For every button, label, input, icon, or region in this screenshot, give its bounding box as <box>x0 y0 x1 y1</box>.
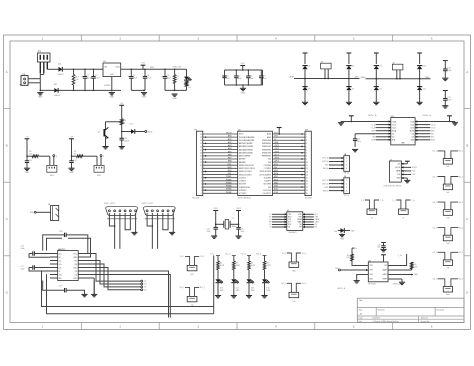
connector KK_B <box>344 176 350 197</box>
svg-text:MCP2551: MCP2551 <box>368 284 376 286</box>
wire L298 supply left <box>341 121 376 123</box>
svg-text:OUT3_B: OUT3_B <box>322 180 329 182</box>
svg-text:10k: 10k <box>346 257 349 259</box>
svg-text:4: 4 <box>275 325 277 329</box>
ground D14 <box>231 295 237 297</box>
svg-text:CANL: CANL <box>425 76 430 79</box>
wire U6 RXD route <box>335 268 368 271</box>
svg-text:EMUC2/OC4/RD1: EMUC2/OC4/RD1 <box>239 174 252 176</box>
svg-text:U2RX: U2RX <box>274 158 280 160</box>
svg-text:4: 4 <box>346 168 347 170</box>
resistor R3 <box>71 151 97 157</box>
svg-text:17: 17 <box>306 184 308 186</box>
svg-text:Revision: Revision <box>436 310 444 312</box>
ground D8 column <box>373 101 379 103</box>
svg-text:In5_2: In5_2 <box>459 252 463 254</box>
ground SW2 circuit <box>68 167 74 169</box>
ground cap stage <box>141 92 147 94</box>
power jack PJ1 <box>20 74 28 85</box>
resistor R10 <box>388 262 418 270</box>
svg-text:6: 6 <box>431 325 433 329</box>
ground 5VDC_OUT2 <box>169 231 175 233</box>
svg-text:Int5: Int5 <box>446 267 449 270</box>
svg-text:Out2: Out2 <box>392 126 396 129</box>
svg-text:10k: 10k <box>74 154 77 156</box>
svg-text:MCLR: MCLR <box>412 167 418 169</box>
wire long loop 2 <box>47 274 214 313</box>
svg-text:OSC2/RC15: OSC2/RC15 <box>262 193 271 195</box>
svg-text:C1-: C1- <box>59 260 62 262</box>
net stub Rx1_2 <box>225 254 235 262</box>
LED D3 <box>184 69 192 90</box>
svg-text:9: 9 <box>306 159 307 161</box>
svg-text:D12: D12 <box>130 124 133 126</box>
diode D12 <box>130 124 145 134</box>
wire MAX232 right pins <box>78 254 86 275</box>
diode D9 <box>374 87 382 91</box>
svg-text:C1+: C1+ <box>59 253 62 255</box>
diode D1 <box>58 64 64 76</box>
title block <box>357 298 464 323</box>
svg-text:T2o: T2o <box>59 274 62 276</box>
svg-text:RX1: RX1 <box>144 284 147 286</box>
wire serial route 2 <box>86 261 141 285</box>
wire U6 VDD ground <box>357 275 369 281</box>
wire input rail top <box>47 68 58 70</box>
ground 5VDC_OUT1 <box>131 231 137 233</box>
capacitor C4 <box>143 69 152 90</box>
wire D7 ground <box>348 90 350 102</box>
wire R7 to D15 <box>248 270 250 280</box>
svg-text:RB6: RB6 <box>228 154 232 156</box>
power flag L298 A <box>349 116 354 122</box>
capacitor C16 <box>21 246 51 258</box>
svg-text:2: 2 <box>346 161 347 163</box>
svg-text:PWM2L/RE2: PWM2L/RE2 <box>262 146 271 148</box>
svg-text:J4: J4 <box>48 204 50 206</box>
svg-text:AN4: AN4 <box>228 147 232 150</box>
wire L298 right pins <box>415 120 436 141</box>
svg-text:In4_2: In4_2 <box>459 227 463 229</box>
svg-text:RB7: RB7 <box>228 158 232 160</box>
connector 5VDC_OUT2 <box>142 203 175 216</box>
svg-text:Chg: Chg <box>334 231 337 233</box>
wire KK_B pins <box>322 179 344 192</box>
power flag cap bank <box>240 63 245 70</box>
terminal Int1 <box>433 151 464 169</box>
LED D13 <box>216 279 225 292</box>
svg-text:PGD: PGD <box>274 192 279 194</box>
svg-text:KK_B: KK_B <box>344 195 350 197</box>
diode D10 <box>417 66 426 70</box>
resistor R7 <box>248 261 256 270</box>
svg-text:Tx1_1: Tx1_1 <box>180 256 185 258</box>
svg-text:20: 20 <box>200 134 202 136</box>
svg-text:PWM3L/RE4: PWM3L/RE4 <box>262 152 271 154</box>
svg-text:RD0: RD0 <box>228 170 232 172</box>
transistor Q1 <box>98 127 109 138</box>
svg-text:Out3: Out3 <box>410 126 414 129</box>
svg-text:OC3/RD3: OC3/RD3 <box>239 181 246 183</box>
svg-text:SDO1/RF8: SDO1/RF8 <box>264 184 272 186</box>
svg-text:3: 3 <box>346 165 347 167</box>
svg-text:Tx1_2: Tx1_2 <box>200 256 205 258</box>
power flag U6 <box>381 255 386 262</box>
wire 5VDC_OUT2 pins <box>145 213 175 249</box>
svg-text:14: 14 <box>200 153 202 155</box>
svg-text:1N4007: 1N4007 <box>58 74 64 76</box>
svg-text:C12: C12 <box>29 160 32 162</box>
svg-text:R9: R9 <box>347 255 349 257</box>
ground C14 <box>119 146 125 148</box>
power flag D10 column <box>417 53 422 64</box>
ground D6 column <box>346 101 352 103</box>
wire KK_A pins <box>322 157 344 171</box>
ground D16 <box>261 295 267 297</box>
wire U6 TXD route <box>352 261 368 266</box>
wire serial route 4 <box>86 268 141 290</box>
svg-text:AN0: AN0 <box>228 135 232 138</box>
svg-text:4: 4 <box>275 37 277 41</box>
svg-text:Int2: Int2 <box>446 191 449 194</box>
svg-text:10: 10 <box>306 162 308 164</box>
svg-text:5: 5 <box>201 181 202 183</box>
svg-text:VSS: VSS <box>370 270 373 272</box>
svg-text:U1TX/RF3: U1TX/RF3 <box>239 193 246 195</box>
jumper J1 <box>321 62 332 79</box>
wire 5V rail <box>121 69 187 71</box>
svg-text:10: 10 <box>200 165 202 167</box>
capacitor C2 <box>91 69 100 90</box>
wire PJ1 to JP1 <box>28 79 40 83</box>
svg-text:17: 17 <box>200 143 202 145</box>
svg-text:Rx2_1: Rx2_1 <box>281 283 286 285</box>
svg-text:B: B <box>466 143 468 147</box>
capacitor C12 <box>25 156 32 168</box>
ground D15 <box>246 295 252 297</box>
svg-text:INT: INT <box>288 222 291 224</box>
svg-text:PWM3: PWM3 <box>226 182 232 184</box>
connector 5VDC_OUT1 <box>104 203 137 216</box>
ground L298 B <box>452 122 458 126</box>
svg-text:19: 19 <box>306 190 308 192</box>
svg-text:PWM3H/RE5: PWM3H/RE5 <box>262 156 271 158</box>
svg-text:SEN_B: SEN_B <box>323 190 329 192</box>
capacitor C15 <box>353 134 376 147</box>
power flag D8 column <box>374 53 379 64</box>
svg-text:INT: INT <box>269 222 272 224</box>
svg-text:PWM1H/RE1: PWM1H/RE1 <box>262 143 271 145</box>
border row ticks left and right <box>4 109 471 256</box>
svg-text:CANH: CANH <box>360 76 366 79</box>
svg-text:C19: C19 <box>59 286 62 288</box>
svg-text:4: 4 <box>201 184 202 186</box>
svg-text:GND: GND <box>69 172 74 174</box>
svg-text:In1_2: In1_2 <box>459 151 463 153</box>
svg-text:Drawn By:: Drawn By: <box>421 320 430 323</box>
svg-text:In6_1: In6_1 <box>433 279 437 281</box>
svg-text:MCLR: MCLR <box>395 167 401 169</box>
wire ICSP pins <box>401 161 417 180</box>
svg-text:C13: C13 <box>73 160 76 162</box>
svg-text:5: 5 <box>353 37 355 41</box>
svg-text:3: 3 <box>201 187 202 189</box>
ground MAX232 b <box>78 278 97 297</box>
svg-text:1: 1 <box>346 180 347 182</box>
svg-text:C2-: C2- <box>59 267 62 269</box>
wire Q1 emitter ground <box>105 137 107 147</box>
svg-text:SW2: SW2 <box>227 167 231 169</box>
svg-text:VSS: VSS <box>298 217 301 219</box>
wire R6 to D14 <box>233 270 235 280</box>
svg-text:5: 5 <box>353 325 355 329</box>
svg-text:2: 2 <box>346 183 347 185</box>
svg-text:Int1: Int1 <box>446 165 449 168</box>
power flag D6 column <box>347 53 352 64</box>
svg-text:12: 12 <box>306 168 308 170</box>
border row letters <box>6 70 470 295</box>
svg-text:Rx2_2: Rx2_2 <box>302 283 307 285</box>
net stub Tx2_2 <box>241 254 251 262</box>
ic U5 CAN controller <box>287 210 303 234</box>
svg-text:1N4007: 1N4007 <box>54 95 60 97</box>
power flag Q1 <box>119 103 124 119</box>
wire serial route 3 <box>86 264 141 287</box>
svg-text:TX1: TX1 <box>144 281 147 283</box>
svg-text:R10: R10 <box>414 264 417 266</box>
svg-text:5VDC_OUT1: 5VDC_OUT1 <box>104 203 115 205</box>
net stub Y1A <box>213 208 218 227</box>
diode D11 <box>417 87 426 91</box>
wire R8 to D16 <box>264 270 266 280</box>
svg-text:U2RX/CN17/RF4: U2RX/CN17/RF4 <box>259 171 271 173</box>
svg-text:13: 13 <box>200 156 202 158</box>
svg-text:CS: CS <box>288 227 290 229</box>
svg-text:PWM4: PWM4 <box>226 186 232 188</box>
connector P1 left <box>192 129 203 199</box>
driver U3 L298 <box>391 116 415 145</box>
svg-text:Y1: Y1 <box>232 218 234 220</box>
capacitor C11 stub <box>442 91 452 109</box>
capacitor C7 <box>234 70 242 85</box>
svg-text:Out4: Out4 <box>410 123 414 126</box>
svg-text:Date:: Date: <box>359 317 364 320</box>
capacitor C20 <box>207 227 218 235</box>
wire top rail to regulator <box>62 69 103 71</box>
diode D7 <box>346 87 354 91</box>
svg-text:8: 8 <box>201 171 202 173</box>
resistor R9 <box>346 248 353 261</box>
svg-text:RD3: RD3 <box>274 179 278 181</box>
svg-text:V+: V+ <box>59 257 61 259</box>
svg-text:12: 12 <box>200 159 202 161</box>
svg-text:C_3: C_3 <box>361 200 364 202</box>
resistor R8 <box>263 261 271 270</box>
connector J3 ICSP <box>384 159 402 187</box>
capacitor C19 bottom <box>43 281 85 295</box>
wire D8 node <box>375 69 377 87</box>
svg-text:In3_2: In3_2 <box>459 202 463 204</box>
capacitor C5 <box>161 69 171 90</box>
svg-text:SDI1/RF7: SDI1/RF7 <box>264 181 271 183</box>
svg-text:U1RX: U1RX <box>274 151 280 153</box>
svg-text:13: 13 <box>306 171 308 173</box>
svg-text:D9: D9 <box>379 88 381 90</box>
terminal Ile <box>361 200 384 220</box>
pin SW2 output <box>100 155 105 158</box>
terminal Int4 <box>433 227 464 245</box>
terminal M34 <box>282 253 307 273</box>
ground regulator <box>109 92 115 94</box>
svg-text:B: B <box>6 143 8 147</box>
svg-text:OSC2: OSC2 <box>236 208 241 210</box>
svg-text:16: 16 <box>200 146 202 148</box>
svg-text:OC1/RD2: OC1/RD2 <box>239 177 246 179</box>
svg-text:LM7805: LM7805 <box>104 85 111 87</box>
svg-text:19: 19 <box>200 137 202 139</box>
svg-text:15: 15 <box>306 177 308 179</box>
svg-text:PWR_LED: PWR_LED <box>173 67 182 69</box>
svg-text:Rx2_2: Rx2_2 <box>256 254 261 256</box>
jumper J2 <box>392 63 403 79</box>
svg-text:1k: 1k <box>176 79 178 81</box>
svg-text:In5_1: In5_1 <box>433 252 437 254</box>
svg-text:14: 14 <box>306 174 308 176</box>
svg-text:Vin: Vin <box>104 67 107 69</box>
svg-text:ICSP FOR PIC PROG: ICSP FOR PIC PROG <box>384 185 402 187</box>
svg-text:Ile: Ile <box>371 218 373 220</box>
svg-text:T_3v: T_3v <box>353 248 357 250</box>
ground C22 <box>380 248 386 250</box>
svg-text:C18: C18 <box>59 231 62 233</box>
wire D16 ground <box>264 282 266 295</box>
svg-text:Sheet of: Sheet of <box>421 317 429 320</box>
svg-text:CS: CS <box>269 227 271 229</box>
svg-text:22pF: 22pF <box>240 231 244 233</box>
svg-text:6: 6 <box>201 177 202 179</box>
wire Q1 collector node <box>121 131 131 133</box>
terminal Int3 <box>433 202 464 220</box>
svg-text:VREF: VREF <box>383 279 387 281</box>
capacitor C8 <box>246 70 254 85</box>
net arrow T_3v left <box>352 248 357 250</box>
capacitor C13 <box>69 156 76 168</box>
svg-text:SW1: SW1 <box>227 164 231 166</box>
wire long loop 1 <box>42 256 214 307</box>
svg-text:Vout: Vout <box>115 66 119 69</box>
wire serial route 5 <box>86 271 169 318</box>
wire TVS group2 node <box>366 78 431 80</box>
connector P2 right <box>305 129 312 199</box>
svg-text:11: 11 <box>306 165 308 167</box>
svg-text:2: 2 <box>119 325 121 329</box>
svg-text:1: 1 <box>42 325 44 329</box>
svg-text:Tx2_2: Tx2_2 <box>302 253 307 255</box>
wire cap stage ground <box>131 90 145 92</box>
svg-text:1k: 1k <box>124 123 126 125</box>
svg-text:IN2: IN2 <box>372 137 375 139</box>
svg-text:8: 8 <box>306 156 307 158</box>
sheet border outer frame <box>4 35 471 330</box>
svg-text:3: 3 <box>346 187 347 189</box>
svg-text:TX2: TX2 <box>144 287 147 289</box>
svg-text:OUT1_A: OUT1_A <box>322 157 329 160</box>
power flag VCC <box>141 63 146 70</box>
svg-text:In1_1: In1_1 <box>433 151 437 153</box>
capacitor C21 <box>236 227 244 235</box>
svg-text:D4: D4 <box>308 66 310 68</box>
svg-text:File:: File: <box>359 321 363 323</box>
svg-text:In2_1: In2_1 <box>433 176 437 178</box>
svg-text:Number: Number <box>378 310 385 312</box>
svg-text:1: 1 <box>201 193 202 195</box>
resistor R1 for LED <box>173 69 178 90</box>
svg-text:Rx1_2: Rx1_2 <box>200 287 205 289</box>
terminal Ilo <box>393 200 416 220</box>
wire TVS group1 node <box>294 78 360 80</box>
svg-text:C_4: C_4 <box>393 200 396 202</box>
svg-text:D3: D3 <box>188 87 190 89</box>
svg-text:GND: GND <box>241 92 246 94</box>
svg-text:C:\Users\..\CAN_Board.SchDoc: C:\Users\..\CAN_Board.SchDoc <box>372 320 399 323</box>
capacitor C6 <box>222 70 230 85</box>
wire U6 CANL <box>388 273 418 276</box>
svg-text:D7: D7 <box>352 88 354 90</box>
ground Q1 <box>102 146 108 148</box>
svg-text:SW1: SW1 <box>50 175 54 177</box>
varistor RV1 <box>72 69 79 90</box>
ground input <box>37 92 43 94</box>
svg-text:Tx2_1: Tx2_1 <box>282 253 287 255</box>
capacitor C14 <box>120 132 130 147</box>
wire loop join <box>213 307 215 314</box>
ground D13 <box>215 295 221 297</box>
svg-text:RD1: RD1 <box>228 173 232 175</box>
wire D9 ground <box>375 90 377 102</box>
svg-text:4MHz: 4MHz <box>232 226 237 228</box>
ground D4 column <box>302 101 308 103</box>
svg-text:M34: M34 <box>292 271 295 273</box>
svg-text:EMUC1/SOSCO/RC14: EMUC1/SOSCO/RC14 <box>239 168 255 170</box>
wire D10 node <box>419 69 421 87</box>
svg-text:C22: C22 <box>378 244 381 246</box>
svg-text:GND: GND <box>142 97 147 99</box>
svg-text:Int4: Int4 <box>446 242 449 245</box>
diode D4 <box>302 66 310 70</box>
connector KK_A <box>344 153 350 175</box>
svg-text:KK_A: KK_A <box>344 172 350 175</box>
svg-text:2: 2 <box>201 190 202 192</box>
svg-text:EMUD1/SOSCI/RC13: EMUD1/SOSCI/RC13 <box>239 165 254 167</box>
svg-text:5VDC_OUT2: 5VDC_OUT2 <box>142 203 153 205</box>
power flag D4 column <box>303 53 308 64</box>
svg-text:MCLR: MCLR <box>226 133 232 135</box>
diode D2 reverse clamp <box>54 84 60 97</box>
wire D4 node <box>304 69 306 87</box>
svg-text:SN65HVD: SN65HVD <box>288 232 297 234</box>
pin serial header <box>141 280 147 291</box>
wire regulator ground <box>111 77 113 92</box>
svg-text:RB8: RB8 <box>228 161 232 163</box>
terminal Int5 <box>433 252 464 270</box>
svg-text:PWM2: PWM2 <box>226 179 232 181</box>
ground D10 column <box>417 101 423 103</box>
svg-text:CANH: CANH <box>289 76 295 79</box>
wire U5 left pins <box>269 213 287 229</box>
power flag L298 B <box>447 116 452 122</box>
svg-text:U1TX: U1TX <box>274 154 280 156</box>
svg-text:Int3: Int3 <box>446 216 449 219</box>
